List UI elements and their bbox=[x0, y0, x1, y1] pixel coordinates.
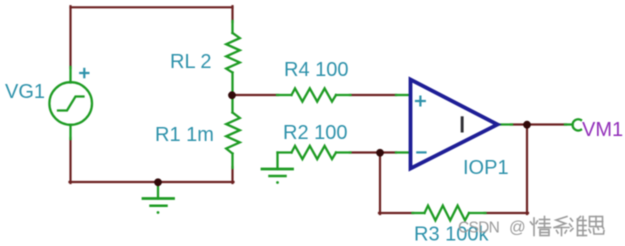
wire feedback left vertical bbox=[379, 153, 381, 215]
svg-text:VM1: VM1 bbox=[582, 119, 623, 141]
wire feedback bottom right bbox=[485, 212, 529, 214]
node A junction dot bbox=[228, 91, 236, 99]
voltage source VG1 bbox=[49, 67, 92, 139]
glyph huai bbox=[571, 219, 573, 222]
glyph xi bbox=[555, 217, 568, 228]
svg-text:VG1: VG1 bbox=[5, 81, 45, 103]
ground at bottom wire bbox=[143, 183, 174, 206]
wire top horizontal bbox=[71, 6, 233, 8]
svg-text:R1 1m: R1 1m bbox=[155, 124, 214, 146]
glyph qing bbox=[533, 218, 535, 236]
resistor R4 bbox=[277, 88, 351, 101]
svg-text:R2 100: R2 100 bbox=[283, 122, 348, 144]
wire VG1 bottom vertical bbox=[69, 138, 71, 183]
wire RL top stub bbox=[231, 6, 233, 22]
plus sign of VG1 bbox=[80, 69, 88, 77]
resistor R1 bbox=[226, 95, 240, 168]
svg-text:R4 100: R4 100 bbox=[284, 59, 349, 81]
watermark CJK glyphs bbox=[531, 217, 605, 236]
voltmeter VM1 bbox=[565, 119, 581, 130]
wire R4 to op-amp plus input bbox=[350, 94, 396, 96]
op-amp IOP1 bbox=[396, 80, 512, 169]
svg-text:@: @ bbox=[509, 219, 526, 237]
wire left vertical to VG1 top bbox=[69, 6, 71, 68]
resistor RL bbox=[226, 21, 240, 96]
node ground junction dot bbox=[154, 178, 162, 186]
node output junction dot bbox=[523, 121, 531, 129]
resistor R2 bbox=[278, 146, 351, 159]
wire feedback right vertical bbox=[526, 125, 528, 215]
ground at R2 input bbox=[262, 153, 293, 177]
svg-text:IOP1: IOP1 bbox=[463, 157, 509, 179]
resistor R3 bbox=[413, 206, 486, 221]
wire node A to R4 bbox=[232, 94, 278, 96]
wire bottom horizontal bbox=[70, 181, 234, 183]
wire feedback bottom left bbox=[379, 212, 413, 214]
wire R1 bottom stub bbox=[231, 167, 233, 183]
svg-text:RL 2: RL 2 bbox=[170, 51, 212, 73]
wire op-amp output bbox=[511, 123, 566, 125]
svg-text:CSDN: CSDN bbox=[458, 220, 499, 237]
node minus-input junction dot bbox=[376, 149, 384, 157]
wire R2 to op-amp minus input bbox=[350, 151, 396, 153]
glyph si bbox=[590, 217, 603, 227]
